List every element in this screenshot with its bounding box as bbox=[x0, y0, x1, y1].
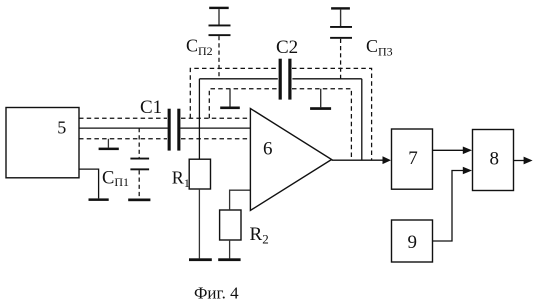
svg-text:C1: C1 bbox=[140, 97, 162, 118]
ground (box 5) bbox=[89, 198, 109, 201]
wire box 9 to box 8 bbox=[433, 171, 464, 242]
resistor R2 bbox=[218, 190, 250, 261]
svg-text:Фиг. 4: Фиг. 4 bbox=[194, 284, 239, 303]
box 5 (sensor) bbox=[6, 108, 79, 178]
capacitor C1 bbox=[168, 109, 181, 151]
wire signal from C1 to op-amp bbox=[180, 127, 250, 129]
wire box 7 to box 8 bbox=[433, 149, 464, 151]
svg-text:7: 7 bbox=[408, 148, 418, 169]
capacitor CП3 (parasitic) bbox=[330, 7, 352, 79]
ground (inner shield right) bbox=[310, 89, 331, 110]
ground (guard shield near box 5) bbox=[99, 139, 119, 150]
arrowhead into box 8 top bbox=[463, 147, 472, 155]
wire box 5 to ground bbox=[79, 169, 99, 198]
wire op-amp output bbox=[332, 159, 383, 161]
wire feedback left vertical bbox=[198, 79, 200, 159]
box 7 bbox=[392, 129, 433, 189]
wire feedback horizontal bbox=[199, 78, 361, 80]
wire guard dashed bottom bbox=[79, 138, 250, 140]
capacitor C2 bbox=[279, 59, 292, 100]
arrowhead into box 8 bottom bbox=[463, 167, 472, 175]
box 8 bbox=[473, 130, 514, 191]
box 9 bbox=[392, 220, 433, 262]
wire signal from box 5 to C1 bbox=[79, 127, 168, 129]
arrowhead into box 7 bbox=[383, 156, 392, 164]
capacitor CП2 (parasitic) bbox=[209, 7, 231, 79]
shield outer dashed box bbox=[190, 68, 371, 160]
svg-text:6: 6 bbox=[263, 139, 273, 160]
shield inner dashed box bbox=[209, 89, 351, 161]
op-amp U6 bbox=[250, 109, 331, 211]
capacitor CП1 (parasitic) bbox=[128, 128, 150, 201]
wire output of box 8 bbox=[514, 160, 525, 162]
resistor R1 bbox=[189, 159, 212, 261]
ground (inner shield left) bbox=[220, 89, 240, 109]
svg-text:C2: C2 bbox=[276, 37, 298, 58]
svg-text:9: 9 bbox=[407, 232, 417, 253]
svg-text:8: 8 bbox=[490, 149, 500, 170]
wire feedback right vertical bbox=[361, 79, 363, 160]
arrowhead output bbox=[524, 157, 533, 165]
wire guard dashed top bbox=[79, 117, 250, 119]
svg-text:5: 5 bbox=[57, 118, 66, 138]
